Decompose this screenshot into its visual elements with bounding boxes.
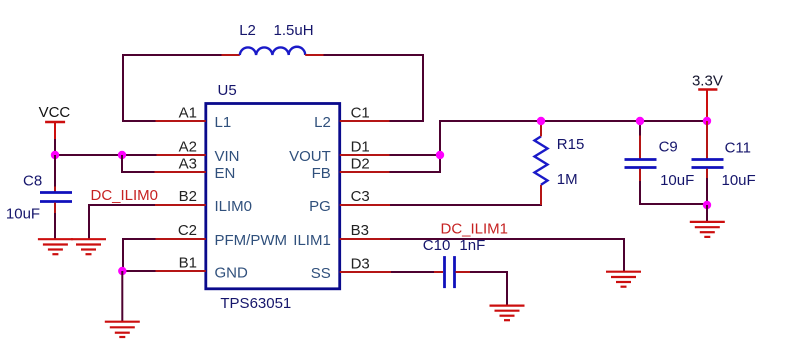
wire: ILIM0 to ground corner — [89, 205, 155, 239]
wire: FB to riser — [390, 120, 441, 172]
svg-text:10uF: 10uF — [660, 172, 694, 189]
svg-text:B2: B2 — [179, 188, 197, 205]
capacitor C11 plates — [692, 160, 724, 168]
node: C9/C11/ground junction — [703, 201, 711, 209]
capacitor C11 bottom pin stub — [706, 169, 708, 179]
svg-text:1nF: 1nF — [459, 237, 485, 254]
capacitor C8 plates — [40, 193, 72, 202]
capacitor C9 bottom pin stub — [639, 169, 641, 182]
svg-text:D1: D1 — [351, 138, 370, 155]
capacitor C9 plates — [625, 160, 657, 168]
wire: C8 bottom stem to ground — [54, 213, 56, 239]
svg-text:GND: GND — [215, 265, 249, 282]
power port 3.3V stem — [706, 90, 708, 122]
resistor R15 top pin stub — [540, 121, 542, 136]
ground: ILIM1 — [606, 272, 641, 287]
node: A2/A3 branch junction — [118, 151, 126, 159]
ground: B1/C2 — [105, 322, 140, 337]
wire: A3 branch drop — [122, 155, 155, 172]
wire: C1 row horizontal to IC — [390, 120, 425, 122]
ground: under C8 — [38, 239, 73, 254]
svg-text:R15: R15 — [557, 136, 585, 153]
ground: SS/C10 — [490, 306, 525, 321]
wire: top horizontal from inductor to right corner — [324, 54, 424, 56]
power port 3.3V bar — [698, 88, 717, 90]
wire: C10 to ground drop — [470, 272, 507, 305]
svg-text:1M: 1M — [557, 171, 578, 188]
pin C1 (L2) stub — [340, 120, 390, 122]
svg-text:B1: B1 — [179, 254, 197, 271]
svg-text:10uF: 10uF — [722, 172, 756, 189]
node: C2/B1 ground junction — [118, 267, 126, 275]
svg-text:PFM/PWM: PFM/PWM — [215, 232, 288, 249]
svg-text:VOUT: VOUT — [289, 148, 331, 165]
svg-text:D2: D2 — [351, 155, 370, 172]
power port VCC bar — [45, 121, 65, 123]
svg-text:PG: PG — [309, 198, 331, 215]
capacitor C10 right pin stub — [456, 271, 472, 273]
wire: top horizontal to inductor left — [122, 54, 222, 56]
wire: A1 loop vertical riser — [122, 55, 124, 122]
wire: C9 bottom to rail — [640, 181, 707, 204]
svg-text:A3: A3 — [179, 155, 197, 172]
svg-text:U5: U5 — [218, 82, 237, 99]
svg-text:DC_ILIM1: DC_ILIM1 — [441, 220, 509, 237]
pin D1 (VOUT) stub — [340, 154, 390, 156]
capacitor C11 top pin stub — [706, 121, 708, 159]
resistor R15 bottom pin stub — [540, 185, 542, 205]
wire: A1 loop horizontal segment — [123, 120, 156, 122]
resistor R15 — [535, 136, 548, 184]
node: bus/3.3V/C11 junction — [703, 117, 711, 125]
svg-text:A2: A2 — [179, 138, 197, 155]
wire: GND B1 to junction — [122, 270, 156, 272]
inductor L2 — [240, 47, 305, 55]
node: VOUT/FB junction — [436, 151, 444, 159]
svg-text:L1: L1 — [215, 114, 232, 131]
svg-text:C9: C9 — [659, 139, 678, 156]
svg-text:DC_ILIM0: DC_ILIM0 — [91, 187, 159, 204]
wire: SS to C10 — [391, 271, 435, 273]
wire: C8 top stem — [54, 155, 56, 187]
svg-text:B3: B3 — [351, 222, 369, 239]
capacitor C10 left pin stub — [434, 271, 443, 273]
svg-text:1.5uH: 1.5uH — [274, 22, 314, 39]
svg-text:D3: D3 — [351, 255, 370, 272]
pin C3 (PG) stub — [340, 204, 390, 206]
pin A3 (EN) stub — [155, 171, 206, 173]
svg-text:VCC: VCC — [39, 104, 71, 121]
wire: VIN bus VCC to A2 — [55, 154, 157, 156]
capacitor C8 bottom pin stub — [54, 203, 56, 214]
svg-text:A1: A1 — [179, 104, 197, 121]
pin D3 (SS) stub — [340, 271, 391, 273]
wire: C9 top stem — [639, 121, 641, 136]
inductor L2 left pin stub — [222, 54, 240, 56]
svg-text:C10: C10 — [423, 237, 451, 254]
svg-text:C3: C3 — [351, 188, 370, 205]
svg-text:SS: SS — [311, 265, 331, 282]
capacitor C9 top pin stub — [639, 136, 641, 159]
ground: ILIM0 — [71, 239, 106, 254]
wire: PFM/PWM to left drop — [123, 239, 156, 271]
wire: junction to ground stem — [706, 205, 708, 222]
svg-text:L2: L2 — [314, 114, 331, 131]
pin B1 (GND) stub — [156, 270, 206, 272]
wire: VCC stem to junction — [54, 139, 56, 155]
pin B2 (ILIM0) stub — [155, 204, 206, 206]
node: VCC/C8 junction — [51, 151, 59, 159]
inductor L2 right pin stub — [305, 54, 323, 56]
svg-text:FB: FB — [312, 165, 331, 182]
svg-text:ILIM0: ILIM0 — [215, 198, 253, 215]
power port VCC stem — [54, 122, 56, 140]
svg-text:VIN: VIN — [215, 148, 240, 165]
node: bus/R15 junction — [537, 117, 545, 125]
svg-text:TPS63051: TPS63051 — [220, 295, 291, 312]
wire: PG run to R15 — [390, 204, 542, 206]
pin C2 (PFM/PWM) stub — [155, 238, 206, 240]
pin A2 (VIN) stub — [156, 154, 206, 156]
wire: VOUT to junction — [390, 154, 441, 156]
wire: junction down to ground — [121, 271, 123, 321]
capacitor C10 plates — [445, 256, 455, 288]
wire: right loop vertical down to C1 row — [422, 54, 424, 121]
wire: output bus — [440, 120, 707, 122]
svg-text:C11: C11 — [725, 140, 751, 157]
node: bus/C9 junction — [636, 117, 644, 125]
svg-text:ILIM1: ILIM1 — [293, 232, 331, 249]
wire: C11 bottom stem — [706, 178, 708, 204]
wire: ILIM1 run — [390, 239, 624, 271]
svg-text:C2: C2 — [178, 222, 197, 239]
pin A1 (L1) stub — [156, 120, 206, 122]
capacitor C8 top pin stub — [54, 187, 56, 192]
pin D2 (FB) stub — [340, 171, 390, 173]
pin B3 (ILIM1) stub — [340, 238, 390, 240]
svg-text:C1: C1 — [351, 104, 370, 121]
svg-text:10uF: 10uF — [6, 206, 40, 223]
svg-text:3.3V: 3.3V — [692, 72, 723, 89]
svg-text:EN: EN — [215, 165, 236, 182]
svg-text:L2: L2 — [239, 22, 256, 39]
ground: under C9/C11 — [690, 222, 725, 237]
IC U5 body — [206, 104, 340, 289]
svg-text:C8: C8 — [23, 173, 42, 190]
